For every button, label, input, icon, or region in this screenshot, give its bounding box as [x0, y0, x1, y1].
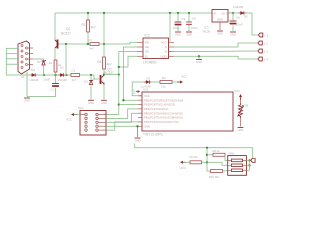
svg-text:1-1: 1-1 [264, 33, 268, 37]
wire A to pin [174, 43, 258, 47]
junction R3-C4-base [87, 43, 89, 45]
wire gnd stub [198, 56, 200, 58]
ground IC3 [217, 31, 223, 36]
wire hdr row4 gnd [106, 125, 138, 127]
wire r8 stub [207, 154, 213, 156]
IC IC3 78L05 [202, 10, 228, 34]
ground C3 [175, 32, 181, 37]
svg-text:C3: C3 [182, 17, 186, 21]
connector X1 DB9 [18, 41, 30, 79]
svg-text:1N4148: 1N4148 [233, 5, 244, 9]
wire X1 gnd drop [26, 72, 28, 97]
svg-text:10uF: 10uF [236, 23, 243, 27]
svg-text:IN: IN [213, 12, 216, 16]
svg-text:PB1(PCINT1/AIN1/OC0B/MISO): PB1(PCINT1/AIN1/OC0B/MISO) [144, 116, 183, 120]
svg-text:1N4148: 1N4148 [29, 78, 39, 82]
junction node44 [103, 43, 105, 45]
junction rail-C5 [188, 12, 190, 14]
junction sw right b [248, 164, 250, 166]
wire r8-sw [225, 155, 228, 161]
svg-text:R4: R4 [162, 76, 166, 80]
wire Q1 collector [54, 48, 56, 60]
junction D1 node [90, 74, 92, 76]
svg-text:RE: RE [145, 45, 149, 49]
connector SV1 header [78, 106, 106, 135]
pin 1-1 [259, 33, 269, 37]
wire node74 bus [104, 74, 119, 76]
svg-text:1N4148: 1N4148 [58, 78, 68, 82]
resistor R8 [213, 153, 225, 156]
svg-text:4k7: 4k7 [91, 26, 96, 30]
svg-text:PB4(PCINT4/ADC2): PB4(PCINT4/ADC2) [144, 107, 168, 111]
wire sw stub c [246, 169, 249, 171]
junction rail-IC2 VCC [169, 12, 171, 14]
IC IC2 LTC485 [137, 34, 174, 65]
wire X1 row1 [6, 47, 18, 49]
svg-text:DE: DE [145, 50, 149, 54]
svg-text:GND: GND [196, 60, 202, 64]
wire row82 [132, 81, 146, 83]
svg-text:4n7: 4n7 [72, 78, 77, 82]
wire R6 bottom [240, 118, 242, 127]
supply VCC top [177, 75, 188, 84]
transistor Q2 [100, 68, 114, 85]
wire C6 drop [232, 13, 234, 21]
supply VCC R6 [234, 89, 242, 100]
svg-text:VCC: VCC [181, 75, 188, 79]
svg-text:DI: DI [145, 54, 148, 58]
wire r9-sw [202, 162, 228, 165]
switch SW1 [228, 151, 247, 175]
resistor R10 [211, 170, 223, 173]
junction node74 A [103, 73, 105, 75]
wire R5-node74 [103, 69, 105, 75]
junction R1 bottom [54, 74, 56, 76]
svg-text:1-2: 1-2 [264, 41, 268, 45]
ground IC2 [196, 60, 202, 65]
supply VCC header [66, 113, 77, 122]
svg-text:PB2(PCINT2/SCK/ADC1/T0): PB2(PCINT2/SCK/ADC1/T0) [144, 120, 179, 124]
junction rail-R3 [87, 12, 89, 14]
capacitor C5 [186, 22, 192, 24]
svg-text:GND: GND [186, 33, 192, 37]
svg-text:D2: D2 [60, 66, 64, 70]
junction D2-base branch [65, 74, 67, 76]
svg-text:VCC: VCC [132, 89, 136, 95]
svg-text:R9 2k2: R9 2k2 [190, 155, 199, 159]
svg-text:IC2: IC2 [145, 34, 150, 38]
wire row3 [119, 104, 138, 106]
svg-text:VCC: VCC [161, 40, 167, 44]
svg-text:GND: GND [88, 101, 94, 105]
wire row75 a [38, 74, 61, 76]
wire C4-RO [99, 42, 137, 44]
junction mcu gnd [136, 125, 138, 127]
svg-text:78L05: 78L05 [202, 30, 210, 34]
wire C6-gnd [232, 25, 234, 31]
svg-text:TINY13-20PU: TINY13-20PU [143, 133, 164, 137]
svg-text:BC337: BC337 [104, 71, 114, 75]
junction node74 B [118, 73, 120, 75]
svg-text:R10 3k9: R10 3k9 [209, 175, 219, 179]
wire vcc-r9 [183, 161, 190, 163]
svg-text:C2: C2 [72, 69, 76, 73]
ground IC4 [135, 138, 141, 143]
junction gnd tee [198, 55, 200, 57]
pin bottom jp [251, 159, 255, 163]
wire Q2 base [94, 75, 99, 79]
resistor R9 [190, 161, 202, 164]
svg-text:GND: GND [101, 101, 107, 105]
resistor R1 [54, 60, 57, 72]
svg-text:C4: C4 [192, 17, 196, 21]
svg-text:BC327: BC327 [61, 32, 71, 36]
ground C5 [186, 32, 192, 37]
diode D6 [144, 80, 151, 83]
svg-text:1-3: 1-3 [264, 49, 268, 53]
svg-text:D6: D6 [147, 77, 151, 81]
ground C6 [230, 32, 236, 37]
wire X1 row2 [6, 53, 18, 55]
diode D2 [58, 73, 68, 82]
IC IC4 ATtiny13 [138, 88, 233, 137]
svg-text:D4: D4 [31, 68, 35, 72]
capacitor C4 [90, 43, 99, 46]
wire hdr row3 [106, 113, 138, 122]
wire bottom bus [135, 144, 253, 159]
wire C3-gnd [177, 26, 179, 31]
svg-text:C1 +: C1 + [51, 88, 57, 92]
wire R1 link [55, 60, 57, 75]
pin 1-3 [258, 49, 268, 53]
svg-text:GND: GND [144, 124, 150, 128]
wire D3-row [43, 65, 45, 75]
svg-text:100n: 100n [191, 26, 198, 30]
svg-text:PB3(PCINT3/CLKI/ADC3): PB3(PCINT3/CLKI/ADC3) [144, 103, 175, 107]
pin 1-4 [258, 57, 268, 61]
wire node-C1 [55, 75, 57, 83]
ground Q2 [101, 100, 107, 105]
svg-text:4k7: 4k7 [107, 63, 112, 67]
wire reg out [228, 12, 240, 14]
wire C1-return [27, 88, 56, 97]
wire hdr row5 [106, 122, 138, 130]
svg-text:R6: R6 [245, 104, 249, 108]
wire X1 row3 [6, 58, 18, 60]
ground R6 [238, 128, 244, 133]
junction reg out [232, 12, 234, 14]
wire R4-vcc [172, 81, 177, 83]
diode D3 zener [37, 60, 46, 65]
svg-text:GND: GND [217, 18, 223, 22]
svg-text:VCC: VCC [180, 166, 187, 170]
svg-text:GND: GND [161, 54, 167, 58]
svg-text:LTC485N: LTC485N [143, 61, 157, 65]
svg-text:SW1: SW1 [229, 151, 236, 155]
wire hdr row2 [106, 109, 138, 119]
wire DI bus [119, 56, 137, 67]
wire RE bus [123, 47, 138, 100]
wire r10-sw [223, 170, 228, 172]
svg-text:C6: C6 [236, 16, 240, 20]
junction r9 [206, 161, 208, 163]
wire Q2 emitter-gnd [103, 84, 105, 100]
wire C3 drop [177, 13, 179, 22]
svg-text:X1: X1 [21, 75, 25, 79]
svg-text:Q1: Q1 [66, 27, 70, 31]
wire D1-gnd [90, 85, 92, 100]
svg-text:10uF: 10uF [44, 78, 51, 82]
wire X1 row4 [6, 63, 18, 65]
junction D3 node [43, 74, 45, 76]
junction DI-V1 [118, 66, 120, 68]
junction bb-207 [206, 147, 208, 149]
svg-text:VCC: VCC [144, 94, 150, 98]
wire sw collect [249, 160, 251, 170]
wire D6-R4 [152, 81, 161, 83]
wire row75 c [80, 74, 95, 76]
svg-text:R3: R3 [81, 23, 85, 27]
wire row75 b [66, 74, 71, 76]
junction rail-R5 [103, 12, 105, 14]
resistor R3 [81, 20, 96, 32]
wire hdr vcc [74, 114, 80, 116]
wire IC2 VCC [169, 13, 171, 42]
wire X1-D3 [33, 59, 44, 61]
svg-text:C4: C4 [88, 38, 92, 42]
svg-text:PB5(PCINT5/RESET/ADC0/DW): PB5(PCINT5/RESET/ADC0/DW) [144, 98, 183, 102]
wire R6 top [240, 97, 242, 103]
wire sw stub b [246, 164, 249, 166]
resistor R4 [160, 81, 172, 84]
wire C5 drop [188, 13, 190, 22]
svg-text:R1: R1 [49, 61, 53, 65]
wire sw stub a [246, 159, 249, 161]
wire X1 left drop [6, 48, 30, 75]
svg-text:IC4: IC4 [144, 88, 149, 92]
supply VCC bottom [180, 161, 187, 170]
resistor R5 [97, 57, 112, 69]
wire D5 to col [246, 13, 259, 35]
wire C5-gnd [188, 25, 190, 31]
svg-text:SV1: SV1 [78, 106, 84, 110]
svg-text:GND: GND [230, 33, 236, 37]
capacitor C1 [52, 84, 59, 87]
junction base-D2 branch [65, 43, 67, 45]
wire branch 207 [207, 148, 211, 171]
svg-text:4n7: 4n7 [90, 47, 95, 51]
svg-text:PB0(PCINT0/AIN0/OC0A/MOSI): PB0(PCINT0/AIN0/OC0A/MOSI) [144, 111, 183, 115]
wire Q1 base [59, 43, 88, 45]
diode D4 [29, 73, 39, 82]
svg-text:VCC: VCC [234, 89, 241, 93]
svg-text:GND: GND [217, 32, 223, 36]
pin 1-2 [258, 41, 268, 45]
resistor R6 trimmer [238, 103, 249, 118]
wire R3-node [87, 32, 89, 44]
svg-text:RO: RO [145, 40, 149, 44]
pin IC4 gnd lead [137, 127, 139, 137]
svg-text:D5: D5 [244, 15, 248, 19]
svg-text:GND: GND [135, 139, 141, 143]
svg-text:VCC: VCC [66, 118, 73, 122]
svg-text:D3: D3 [37, 60, 41, 64]
wire rail-R5 [103, 13, 105, 57]
capacitor C3 [175, 22, 182, 25]
svg-text:A: A [165, 45, 167, 49]
wire rail-R3 [87, 13, 89, 20]
capacitor C2 [71, 74, 80, 77]
wire B to pin [174, 50, 258, 53]
wire VCC rail [55, 12, 233, 14]
ground D1 [88, 100, 94, 105]
wire VCC pin drop [132, 82, 142, 96]
svg-text:OUT: OUT [221, 12, 227, 16]
svg-text:GND: GND [238, 128, 244, 132]
junction sw right a [248, 159, 250, 161]
pins X1 right stubs [28, 48, 33, 65]
junction RE-row2 [122, 99, 124, 101]
transistor Q1 [55, 27, 71, 49]
capacitor C6 [230, 21, 237, 24]
wire D1 drop [90, 75, 92, 81]
pin IC3 gnd stub [219, 22, 221, 30]
diode D1 zener [84, 80, 93, 85]
diode D5 [239, 11, 246, 14]
svg-text:R5: R5 [97, 60, 101, 64]
ground X1 [24, 98, 30, 103]
svg-text:GND: GND [24, 99, 30, 103]
wire Q1 emitter drop [54, 13, 56, 40]
junction rail-C3 [177, 12, 179, 14]
svg-text:R8 1k: R8 1k [213, 149, 220, 153]
supply VCC at IC4 pin [132, 89, 140, 95]
wire base drop [65, 44, 67, 75]
junction r8 [206, 154, 208, 156]
svg-text:10k: 10k [161, 85, 166, 89]
svg-text:D1: D1 [84, 80, 88, 84]
junction DE-row3 [118, 103, 120, 105]
svg-text:1-4: 1-4 [264, 57, 268, 61]
wire DE bus [106, 52, 137, 115]
svg-text:GND: GND [175, 33, 181, 37]
wire GND net right [174, 56, 258, 59]
svg-text:B: B [165, 50, 167, 54]
